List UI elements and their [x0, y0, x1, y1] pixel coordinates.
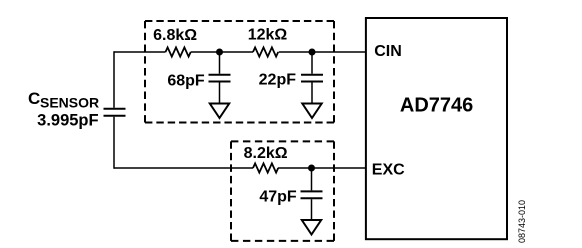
- capacitor C_SENSOR: [104, 109, 126, 116]
- resistor R2 12kOhm: [253, 47, 278, 56]
- resistor R3 8.2kOhm: [253, 163, 278, 172]
- svg-text:C: C: [28, 89, 40, 108]
- capacitor C2 22pF: [311, 52, 313, 104]
- resistor R1 6.8kOhm: [166, 47, 191, 56]
- svg-text:SENSOR: SENSOR: [40, 95, 99, 111]
- svg-text:CIN: CIN: [374, 43, 402, 60]
- wire: CIN net top horizontal: [114, 51, 366, 53]
- IC U1 AD7746 outline: [366, 18, 507, 239]
- svg-text:EXC: EXC: [372, 162, 405, 179]
- svg-text:68pF: 68pF: [167, 72, 205, 89]
- filter box 1 (dashed) around 6.8k/12k RC network: [145, 21, 334, 123]
- wire: EXC net bottom horizontal: [114, 167, 366, 169]
- ground symbol (under C1): [210, 104, 229, 119]
- node B (junction of R2/C2/CIN): [309, 49, 316, 56]
- filter box 2 (dashed) around 8.2k/47pF RC network: [231, 141, 334, 241]
- node A (junction of R1/R2/C1): [216, 49, 223, 56]
- label C_SENSOR: [28, 89, 99, 110]
- wire: C_SENSOR left vertical: [113, 51, 115, 168]
- svg-text:08743-010: 08743-010: [517, 200, 527, 243]
- svg-text:AD7746: AD7746: [400, 94, 473, 116]
- ground symbol (under C2): [302, 104, 321, 119]
- svg-text:6.8kΩ: 6.8kΩ: [153, 27, 197, 44]
- capacitor C1 68pF: [219, 52, 221, 104]
- svg-text:47pF: 47pF: [259, 188, 297, 205]
- ground symbol (under C3): [302, 220, 321, 235]
- svg-text:22pF: 22pF: [259, 72, 297, 89]
- svg-text:3.995pF: 3.995pF: [37, 111, 98, 129]
- svg-text:8.2kΩ: 8.2kΩ: [244, 145, 288, 162]
- svg-text:12kΩ: 12kΩ: [248, 27, 288, 44]
- node C (junction of R3/C3/EXC): [308, 165, 315, 172]
- capacitor C3 47pF: [311, 168, 313, 220]
